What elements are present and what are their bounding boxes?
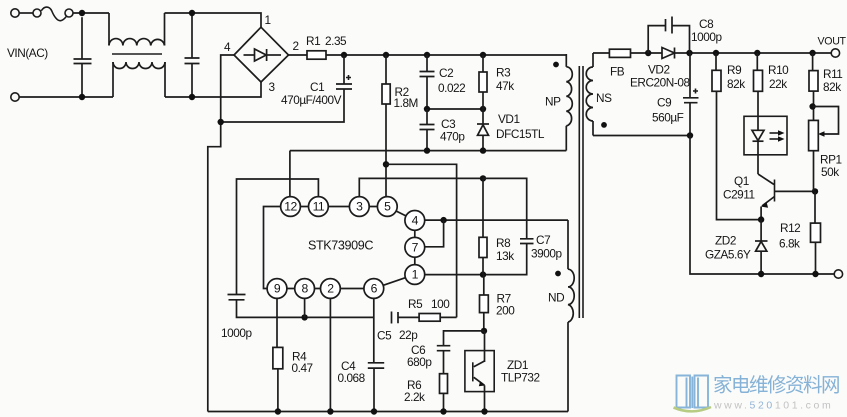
svg-text:9: 9 bbox=[274, 282, 281, 296]
wire bridge pin2 to R1 bbox=[289, 54, 308, 56]
svg-text:680p: 680p bbox=[407, 355, 432, 369]
capacitor C3 bbox=[420, 109, 435, 151]
polarity dot ND bbox=[555, 271, 561, 277]
svg-text:STK73909C: STK73909C bbox=[308, 239, 373, 253]
IC box outline bbox=[264, 207, 281, 289]
capacitor C4 bbox=[368, 298, 384, 411]
svg-text:R5: R5 bbox=[408, 297, 423, 311]
svg-text:6: 6 bbox=[371, 282, 378, 296]
junction mid link right bbox=[480, 106, 486, 112]
wire DC+ top rail bbox=[344, 54, 566, 56]
junction R12 bottom bbox=[812, 271, 818, 277]
svg-text:C2: C2 bbox=[439, 66, 453, 80]
junction ZD1 collector bbox=[481, 328, 487, 334]
capacitor C1 electrolytic bbox=[221, 55, 352, 122]
wire snubber return rail bbox=[290, 150, 566, 152]
resistor R2 bbox=[382, 55, 390, 197]
svg-text:82k: 82k bbox=[727, 77, 745, 91]
junction C1 top bbox=[341, 52, 347, 58]
junction pin4 bbox=[440, 217, 446, 223]
resistor R1 bbox=[307, 51, 326, 59]
svg-text:4: 4 bbox=[224, 40, 231, 54]
svg-text:6.8k: 6.8k bbox=[779, 237, 800, 251]
resistor R10 bbox=[754, 53, 763, 116]
junction CX1 top bbox=[79, 10, 85, 16]
svg-text:5: 5 bbox=[384, 200, 391, 214]
svg-text:R3: R3 bbox=[496, 66, 511, 80]
wire secondary ground bbox=[690, 136, 834, 275]
junction Q1 base bbox=[812, 188, 818, 194]
optocoupler ZD1 phototransistor bbox=[465, 331, 494, 412]
capacitor C6 bbox=[437, 346, 451, 374]
junction R10 top bbox=[754, 50, 760, 56]
svg-text:R12: R12 bbox=[780, 221, 800, 235]
svg-text:8: 8 bbox=[301, 282, 308, 296]
polarity dot NS bbox=[601, 122, 607, 128]
wire primary ground bottom rail bbox=[208, 411, 568, 413]
svg-text:1.8M: 1.8M bbox=[394, 96, 418, 110]
svg-text:0.022: 0.022 bbox=[438, 81, 465, 95]
svg-text:3: 3 bbox=[269, 80, 276, 94]
svg-text:1: 1 bbox=[265, 13, 271, 27]
junction Q1 emitter bbox=[758, 216, 764, 222]
svg-text:ERC20N-08: ERC20N-08 bbox=[630, 76, 690, 90]
svg-text:Q1: Q1 bbox=[734, 174, 749, 188]
svg-text:0.47: 0.47 bbox=[292, 361, 313, 375]
svg-text:R1: R1 bbox=[306, 34, 320, 48]
capacitor C9 electrolytic bbox=[683, 53, 699, 136]
svg-text:11: 11 bbox=[313, 200, 325, 214]
resistor R4 bbox=[273, 298, 283, 411]
svg-text:C5: C5 bbox=[377, 329, 392, 343]
wire C6 branch bbox=[444, 331, 485, 346]
junction ZD1 bottom bbox=[481, 408, 487, 414]
zener ZD2 bbox=[755, 220, 768, 274]
junction R11 bottom bbox=[809, 103, 815, 109]
svg-text:2.2k: 2.2k bbox=[404, 390, 425, 404]
pin 4 bbox=[405, 211, 425, 231]
transistor Q1 bbox=[758, 174, 815, 220]
wire R1 to rail bbox=[326, 54, 344, 56]
svg-text:C2911: C2911 bbox=[723, 188, 755, 202]
wire pin8 stub bbox=[304, 298, 306, 317]
capacitor X-cap CX2 bbox=[185, 13, 200, 97]
svg-text:470p: 470p bbox=[440, 130, 465, 144]
pin 7 bbox=[405, 237, 425, 257]
wire choke to bridge bottom bbox=[165, 82, 261, 97]
junction R3 top bbox=[480, 52, 486, 58]
junction R2 top bbox=[383, 52, 389, 58]
svg-text:FB: FB bbox=[610, 65, 625, 79]
svg-text:2: 2 bbox=[293, 39, 299, 53]
svg-text:2.35: 2.35 bbox=[325, 34, 347, 48]
capacitor C2 bbox=[420, 55, 435, 109]
resistor R8 bbox=[479, 178, 487, 274]
junction R11 top bbox=[809, 50, 815, 56]
svg-text:www.520101.com: www.520101.com bbox=[713, 400, 833, 412]
wire bottom AC line left bbox=[19, 96, 113, 98]
svg-text:NP: NP bbox=[545, 95, 561, 109]
pin 5 bbox=[377, 197, 397, 217]
pin 8 bbox=[295, 279, 315, 299]
watermark bbox=[674, 375, 840, 412]
resistor R9 bbox=[712, 53, 761, 220]
junction R8 bottom bbox=[480, 271, 486, 277]
terminal input bottom bbox=[11, 93, 19, 101]
junction pin8 bbox=[301, 314, 307, 320]
wire pin11 to 1000p cap bbox=[237, 179, 319, 295]
svg-text:R8: R8 bbox=[496, 236, 511, 250]
junction C3 bottom bbox=[424, 147, 430, 153]
pin 6 bbox=[364, 279, 384, 299]
IC U1 STK73909C bbox=[264, 197, 425, 299]
wire bridge pin4 down bbox=[208, 55, 234, 412]
junction pin2 bottom bbox=[327, 408, 333, 414]
junction mid link left bbox=[424, 106, 430, 112]
svg-text:82k: 82k bbox=[823, 80, 841, 94]
junction R9 top bbox=[713, 50, 719, 56]
svg-text:NS: NS bbox=[596, 91, 612, 105]
svg-text:4: 4 bbox=[412, 213, 419, 227]
winding NS bbox=[592, 53, 594, 67]
junction R4 bottom bbox=[275, 408, 281, 414]
fuse FU bbox=[33, 7, 73, 21]
wire pin3 to R8 top bbox=[359, 178, 483, 197]
wire pin4 link bbox=[424, 219, 568, 221]
svg-text:100: 100 bbox=[431, 297, 450, 311]
svg-text:22p: 22p bbox=[399, 328, 418, 342]
svg-text:22k: 22k bbox=[769, 77, 787, 91]
inductor L1 common-mode choke bbox=[109, 13, 165, 97]
wire secondary output top bbox=[593, 52, 609, 54]
svg-text:VOUT: VOUT bbox=[818, 36, 847, 48]
core bbox=[579, 66, 583, 318]
capacitor X-cap CX1 bbox=[74, 17, 92, 97]
svg-text:VIN(AC): VIN(AC) bbox=[7, 46, 48, 60]
svg-text:R9: R9 bbox=[727, 63, 741, 77]
svg-text:13k: 13k bbox=[496, 249, 514, 263]
transformer T1 bbox=[545, 53, 612, 412]
diode VD2 bbox=[662, 48, 675, 59]
wire pin1 to R8 bottom bbox=[424, 244, 526, 275]
terminal VOUT bbox=[831, 49, 839, 57]
resistor R6 bbox=[440, 374, 448, 412]
svg-text:3900p: 3900p bbox=[531, 247, 562, 261]
svg-text:ND: ND bbox=[548, 291, 564, 305]
potentiometer RP1 bbox=[809, 120, 819, 191]
wire C2-C3 to R3-VD1 mid link bbox=[427, 108, 483, 110]
junction R6 bottom bbox=[440, 408, 446, 414]
resistor R5 bbox=[419, 314, 457, 322]
junction C4 bottom bbox=[371, 408, 377, 414]
svg-text:12: 12 bbox=[284, 200, 297, 214]
capacitor Cp 1000p bbox=[228, 295, 375, 318]
svg-text:ZD2: ZD2 bbox=[715, 234, 736, 248]
svg-text:1000p: 1000p bbox=[691, 30, 722, 44]
pin 11 bbox=[309, 197, 329, 217]
svg-text:7: 7 bbox=[412, 241, 419, 255]
svg-text:1: 1 bbox=[412, 268, 419, 282]
resistor R7 bbox=[480, 275, 489, 331]
bridge rectifier VC bbox=[234, 27, 289, 82]
wire FB to VD2 bbox=[631, 52, 663, 54]
capacitor C7 bbox=[483, 178, 534, 243]
ferrite bead FB bbox=[609, 49, 630, 57]
svg-text:C8: C8 bbox=[699, 17, 714, 31]
junction CX1 bottom bbox=[79, 94, 85, 100]
svg-text:R11: R11 bbox=[823, 67, 842, 81]
wire pin4 to pin7 bbox=[424, 220, 443, 247]
resistor R11 bbox=[809, 53, 818, 120]
junction VD2 cathode bbox=[686, 50, 692, 56]
junction C1 return bbox=[218, 119, 224, 125]
terminal input top bbox=[11, 9, 19, 17]
svg-text:1000p: 1000p bbox=[221, 326, 252, 340]
wire choke to bridge top bbox=[165, 13, 262, 27]
svg-text:0.068: 0.068 bbox=[338, 371, 366, 385]
svg-text:DFC15TL: DFC15TL bbox=[496, 127, 545, 141]
wire RP1 wiper loop bbox=[813, 107, 839, 135]
junction pin5 branch bbox=[383, 161, 389, 167]
wire pin2 down bbox=[329, 298, 331, 411]
svg-text:50k: 50k bbox=[821, 165, 839, 179]
wire top AC lead bbox=[19, 12, 33, 14]
capacitor C5 bbox=[392, 312, 420, 324]
svg-text:VD2: VD2 bbox=[648, 63, 670, 77]
svg-text:C7: C7 bbox=[536, 233, 550, 247]
winding ND bbox=[567, 220, 569, 269]
svg-text:47k: 47k bbox=[496, 79, 514, 93]
capacitor C8 bbox=[648, 17, 689, 54]
svg-text:470µF/400V: 470µF/400V bbox=[281, 93, 342, 107]
junction VD1 bottom bbox=[480, 147, 486, 153]
resistor R12 bbox=[811, 191, 821, 274]
pin 9 bbox=[267, 279, 287, 299]
wire rail to IC pin12 bbox=[289, 151, 291, 197]
junction R8 top bbox=[480, 175, 486, 181]
diode VD1 bbox=[477, 109, 489, 151]
junction CX2 bottom bbox=[189, 94, 195, 100]
junction C2 top bbox=[424, 52, 430, 58]
svg-text:C9: C9 bbox=[657, 96, 671, 110]
terminal output return bbox=[834, 270, 842, 278]
junction C9 bottom bbox=[687, 132, 693, 138]
svg-text:TLP732: TLP732 bbox=[501, 371, 540, 385]
svg-text:200: 200 bbox=[496, 304, 515, 318]
pin 2 bbox=[321, 279, 341, 299]
optocoupler LED box bbox=[744, 116, 787, 174]
resistor R3 bbox=[479, 55, 487, 109]
junction ZD2 bottom bbox=[758, 271, 764, 277]
svg-text:家电维修资料网: 家电维修资料网 bbox=[713, 375, 839, 397]
junction CX2 top bbox=[189, 10, 195, 16]
wire pin5 branch to R5 column bbox=[386, 164, 457, 317]
wire fuse to junction bbox=[73, 12, 109, 14]
svg-text:GZA5.6Y: GZA5.6Y bbox=[705, 248, 751, 262]
junction VD2 anode bbox=[645, 50, 651, 56]
winding NP bbox=[565, 54, 567, 67]
wire NS bottom return bbox=[593, 135, 690, 137]
polarity dot NP bbox=[553, 62, 559, 68]
pin 3 bbox=[349, 197, 369, 217]
svg-text:VD1: VD1 bbox=[498, 112, 520, 126]
pin 1 bbox=[405, 265, 425, 285]
svg-text:R10: R10 bbox=[768, 63, 789, 77]
svg-text:3: 3 bbox=[356, 200, 363, 214]
wire output rail bbox=[675, 52, 832, 54]
svg-text:C1: C1 bbox=[310, 80, 324, 94]
pin 12 bbox=[281, 197, 301, 217]
svg-text:2: 2 bbox=[327, 282, 334, 296]
svg-text:560µF: 560µF bbox=[652, 111, 684, 125]
